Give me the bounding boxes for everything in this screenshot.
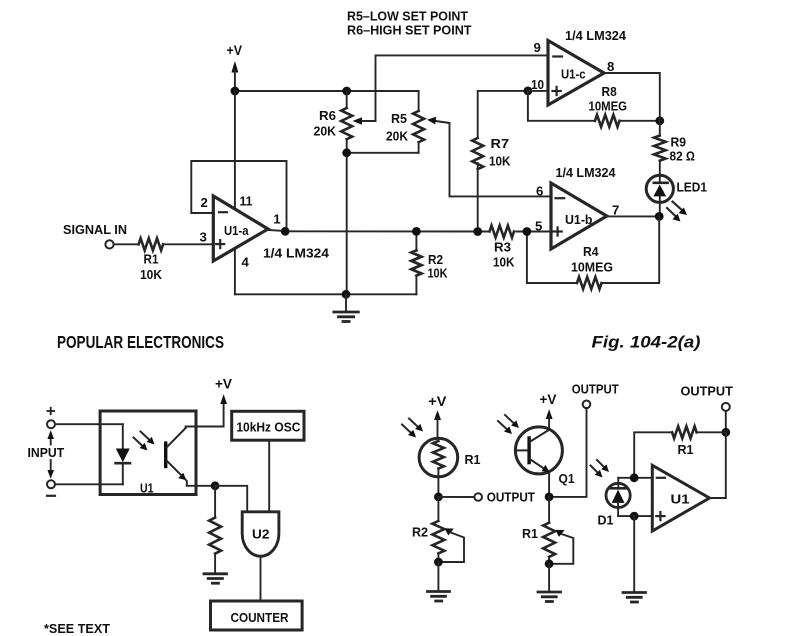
potentiometer R5 20K: [386, 91, 450, 153]
svg-text:U1: U1: [671, 492, 690, 507]
ground symbol phototransistor: [538, 564, 561, 602]
ground symbol main: [334, 294, 359, 321]
svg-text:R6: R6: [319, 108, 336, 123]
svg-text:OUTPUT: OUTPUT: [681, 384, 733, 399]
resistor see-text pulldown: [209, 486, 221, 573]
terminal OUTPUT photocell: [438, 490, 535, 505]
ground symbol photodiode: [623, 593, 646, 603]
svg-text:10K: 10K: [493, 255, 515, 270]
svg-text:R4: R4: [583, 244, 599, 259]
wire U1-b output pin 7: [607, 215, 659, 217]
svg-text:LED1: LED1: [677, 180, 708, 195]
LED LED1: [646, 175, 707, 221]
resistor R3 10K: [490, 226, 515, 270]
resistor R1 10K input: [139, 238, 214, 282]
gate U2: [242, 512, 279, 556]
light arrows photocell: [402, 419, 423, 438]
wire pin 11 supply: [234, 91, 236, 209]
light arrows phototransistor: [498, 415, 519, 434]
svg-text:R1: R1: [678, 442, 694, 457]
svg-text:+V: +V: [215, 377, 232, 392]
node junction U1-a output: [281, 227, 290, 236]
svg-text:R5–LOW SET POINT: R5–LOW SET POINT: [347, 9, 468, 24]
node junction R6 top: [342, 87, 351, 96]
node +V supply top: [227, 43, 243, 91]
node junction feedback/output: [721, 428, 730, 437]
svg-text:1/4 LM324: 1/4 LM324: [556, 165, 617, 180]
svg-text:U1-a: U1-a: [224, 223, 249, 238]
svg-text:11: 11: [240, 193, 253, 208]
svg-text:6: 6: [536, 184, 543, 199]
svg-text:10MEG: 10MEG: [589, 99, 628, 114]
terminal input minus: [47, 480, 55, 496]
wire collector to +V: [186, 402, 224, 428]
svg-text:1: 1: [273, 212, 280, 227]
svg-text:R9: R9: [671, 135, 687, 150]
node junction inverting input: [630, 473, 639, 482]
svg-text:OUTPUT: OUTPUT: [572, 382, 619, 397]
svg-text:9: 9: [534, 40, 541, 55]
svg-text:R1: R1: [522, 526, 538, 541]
box 10kHz OSC: [232, 411, 304, 440]
node junction non-inverting input: [630, 512, 639, 521]
svg-text:8: 8: [607, 59, 614, 74]
svg-text:U2: U2: [252, 527, 269, 542]
photoresistor R1 cell: [419, 438, 480, 497]
op-amp U1-a: [200, 193, 330, 269]
node junction photocell output: [434, 493, 443, 502]
terminal OUTPUT photodiode: [681, 384, 733, 433]
caption set point notes: [347, 9, 472, 38]
node junction emitter: [211, 481, 220, 490]
wire R5 wiper to pin 6 of U1-b: [450, 123, 552, 196]
node junction R2 bottom: [434, 558, 443, 567]
potentiometer R1 rheostat Q1: [522, 497, 573, 564]
node junction R2 top: [412, 227, 421, 236]
transistor opto NPN: [164, 428, 186, 480]
terminal OUTPUT phototransistor: [549, 382, 619, 497]
node INPUT label arrows: [28, 430, 65, 478]
wire non-inverting input: [618, 515, 652, 517]
svg-text:D1: D1: [598, 513, 614, 528]
transistor Q1 photo NPN: [515, 427, 574, 497]
caption POPULAR ELECTRONICS: [57, 332, 224, 352]
node junction ground: [342, 290, 351, 299]
terminal input plus: [47, 408, 55, 428]
svg-text:2: 2: [201, 195, 208, 210]
svg-text:10kHz OSC: 10kHz OSC: [236, 420, 301, 435]
svg-text:R1: R1: [144, 252, 159, 267]
svg-text:1/4 LM324: 1/4 LM324: [565, 28, 627, 43]
svg-text:+V: +V: [227, 43, 243, 58]
wire input leads: [55, 424, 123, 484]
wire R6 wiper to pin 9 of U1-c: [376, 55, 549, 121]
node +V photocell circuit: [428, 394, 446, 438]
node junction pot bottoms: [342, 148, 351, 157]
wire U1-a output: [268, 230, 285, 231]
svg-text:10MEG: 10MEG: [571, 260, 613, 275]
wire pin 4 to ground rail: [234, 249, 236, 294]
node junction R8/R9: [655, 116, 664, 125]
resistor R1 feedback op-amp: [634, 426, 726, 478]
svg-text:3: 3: [200, 230, 207, 245]
caption SEE TEXT: [44, 621, 110, 636]
svg-text:82 Ω: 82 Ω: [670, 149, 696, 164]
wire U1-c output pin 8: [604, 73, 660, 121]
svg-text:10K: 10K: [140, 267, 162, 282]
svg-text:R6–HIGH SET POINT: R6–HIGH SET POINT: [347, 23, 472, 38]
wire node to U2 input: [215, 486, 247, 512]
potentiometer R6 20K: [314, 91, 376, 153]
svg-text:7: 7: [612, 203, 619, 218]
diode D1 photodiode: [598, 478, 631, 528]
resistor R8 10MEG: [528, 84, 660, 127]
wire pot bottoms to ground rail: [347, 153, 419, 294]
svg-text:10: 10: [531, 77, 544, 92]
resistor R9 82ohm: [654, 121, 695, 178]
svg-text:COUNTER: COUNTER: [231, 610, 289, 625]
svg-text:U1: U1: [140, 480, 154, 495]
wire OSC to U2: [268, 440, 270, 512]
node junction output/LED: [655, 212, 664, 221]
svg-text:*SEE TEXT: *SEE TEXT: [44, 621, 110, 636]
caption Fig. 104-2(a): [592, 333, 701, 352]
svg-text:20K: 20K: [314, 124, 337, 139]
svg-text:POPULAR ELECTRONICS: POPULAR ELECTRONICS: [57, 332, 224, 352]
op-amp U1 photodiode: [652, 465, 709, 531]
svg-text:R3: R3: [494, 240, 511, 255]
optocoupler U1 box: [100, 411, 196, 495]
node junction R4 top: [523, 227, 532, 236]
svg-text:Fig. 104-2(a): Fig. 104-2(a): [592, 333, 701, 352]
box COUNTER: [211, 601, 303, 630]
resistor R7 10K: [472, 91, 528, 232]
svg-text:SIGNAL IN: SIGNAL IN: [63, 223, 127, 237]
node junction Q1 emitter: [545, 493, 554, 502]
wire inverting input: [618, 477, 652, 479]
svg-text:4: 4: [242, 255, 250, 270]
node +V phototransistor: [540, 392, 557, 430]
svg-text:1/4 LM324: 1/4 LM324: [263, 245, 330, 260]
svg-text:10K: 10K: [428, 266, 448, 281]
svg-text:U1-b: U1-b: [565, 212, 593, 227]
op-amp U1-b: [535, 165, 619, 249]
resistor R4 10MEG: [527, 216, 659, 289]
ground symbol opto: [204, 574, 227, 583]
svg-text:10K: 10K: [489, 154, 511, 169]
svg-text:R2: R2: [412, 525, 428, 540]
svg-text:R8: R8: [602, 84, 617, 99]
wire U2 to counter: [260, 556, 262, 601]
op-amp U1-c: [531, 28, 627, 105]
light arrows photodiode: [591, 460, 610, 478]
node junction R1 bottom Q1: [545, 559, 554, 568]
svg-text:INPUT: INPUT: [28, 445, 65, 460]
diode opto LED: [116, 424, 130, 484]
light arrows opto: [134, 432, 155, 451]
svg-text:R5: R5: [391, 111, 407, 126]
terminal SIGNAL IN: [63, 223, 139, 248]
svg-text:OUTPUT: OUTPUT: [487, 490, 535, 505]
wire to ground photodiode: [633, 516, 635, 591]
wire emitter to node: [186, 480, 216, 486]
wire feedback box U1-a: [191, 161, 286, 231]
potentiometer R2 rheostat: [412, 497, 464, 562]
svg-text:20K: 20K: [386, 129, 408, 144]
node junction R7 bottom: [473, 227, 482, 236]
svg-text:+V: +V: [428, 394, 446, 409]
node junction pin 10: [524, 87, 533, 96]
wire main signal line: [285, 230, 551, 232]
wire op-amp output: [710, 432, 726, 498]
wire ground return bottom: [235, 293, 417, 295]
ground symbol photocell: [428, 562, 450, 601]
svg-text:R1: R1: [465, 452, 481, 467]
node junction +V: [231, 87, 240, 96]
svg-text:U1-c: U1-c: [561, 67, 586, 82]
svg-text:R7: R7: [491, 136, 510, 151]
svg-text:+V: +V: [540, 392, 557, 407]
wire pin 10 stub: [528, 90, 548, 92]
resistor R2 10K: [411, 231, 447, 294]
node +V opto: [215, 377, 232, 405]
wire +V rail top: [235, 90, 419, 92]
svg-text:Q1: Q1: [559, 471, 575, 486]
